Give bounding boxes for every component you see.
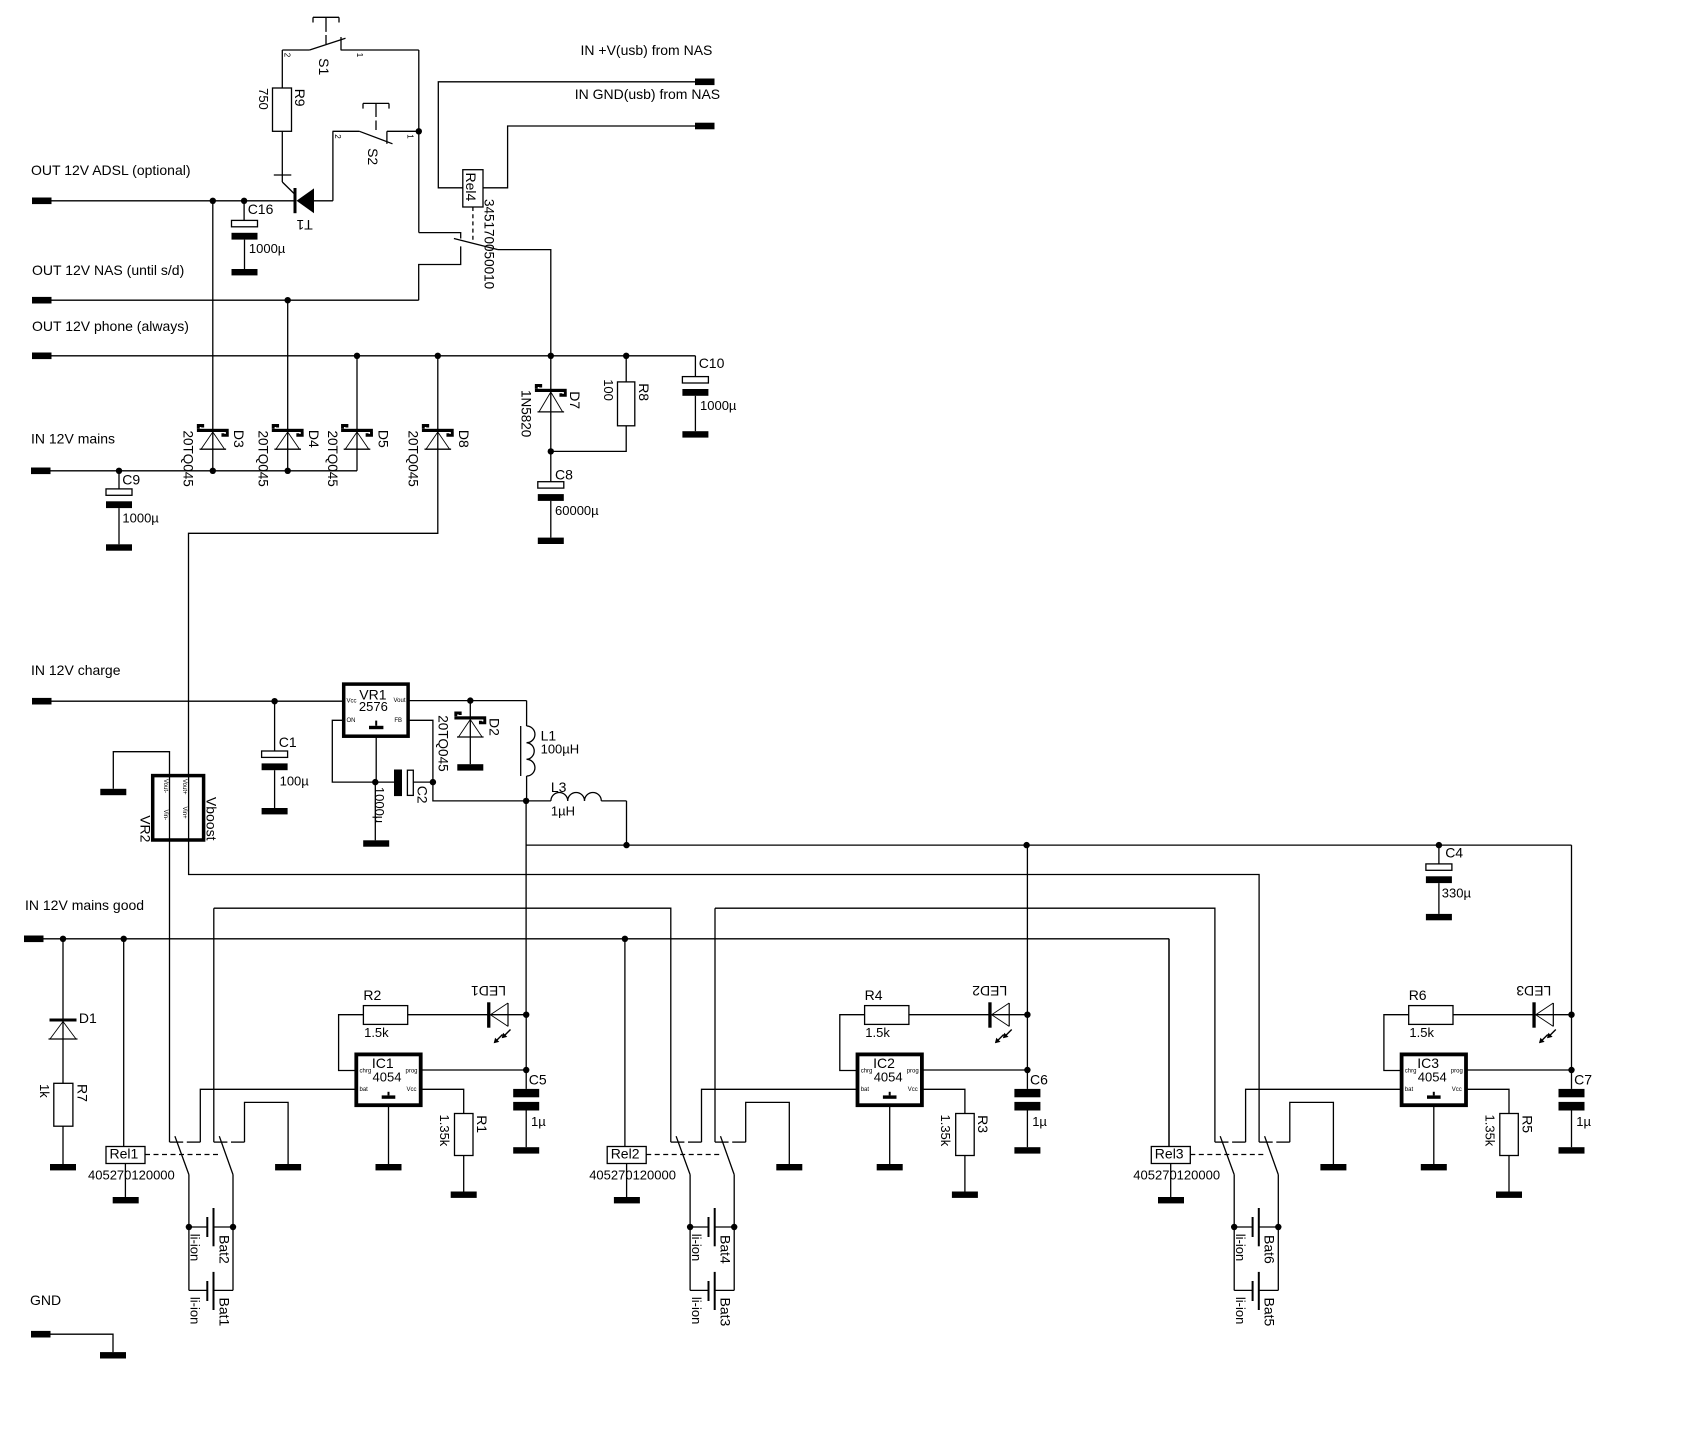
resistor R7 (54, 1083, 73, 1126)
svg-text:R2: R2 (363, 987, 381, 1003)
wire C5 line from L1/L3 node (525, 801, 527, 1015)
wire GND to ground (51, 1334, 114, 1352)
diode D5 symbol (341, 429, 373, 432)
wire VR2 Vin- down (169, 840, 171, 1142)
ground C10 (682, 431, 708, 437)
wire phone to D8 (437, 356, 439, 429)
wire mains rail (51, 470, 358, 472)
resistor R3 (956, 1114, 975, 1156)
wire Vcc to R1 (421, 1089, 464, 1113)
capacitor C9 (118, 471, 120, 489)
svg-text:1000µ: 1000µ (122, 510, 159, 525)
svg-text:IN 12V mains: IN 12V mains (31, 431, 115, 447)
diode D1 (62, 939, 64, 1084)
ground Rel3 (1158, 1197, 1184, 1203)
svg-text:S2: S2 (365, 148, 381, 165)
node VR1gnd/C2 (372, 779, 378, 785)
node phone/D5 (354, 353, 360, 359)
capacitor C8 plates (538, 482, 564, 488)
svg-text:Bat5: Bat5 (1262, 1298, 1278, 1327)
diode D3 symbol (197, 429, 229, 432)
wire Vcc to R5 (1466, 1089, 1509, 1113)
node ADSL/D3 (210, 198, 216, 204)
svg-text:405270120000: 405270120000 (88, 1167, 175, 1182)
svg-text:D2: D2 (487, 718, 503, 736)
svg-text:S1: S1 (316, 58, 332, 75)
node rail/Rel1 (121, 936, 127, 942)
relay Rel2 contact 2 (715, 1141, 729, 1143)
svg-text:C4: C4 (1445, 845, 1463, 861)
VR1 internal gnd (375, 721, 377, 726)
diode D7 symbol (535, 389, 567, 392)
wire phone to C10 (694, 356, 696, 377)
svg-text:VR2: VR2 (137, 815, 153, 842)
svg-text:prog: prog (907, 1068, 919, 1074)
wire L3 out down (626, 801, 628, 845)
svg-text:L3: L3 (551, 779, 567, 795)
svg-text:IN 12V charge: IN 12V charge (31, 662, 121, 678)
wire VR2 Vout- to ground (113, 752, 169, 789)
node Vout/D2 (467, 697, 473, 703)
battery Bat4 (687, 1224, 693, 1230)
ground C7 (1559, 1147, 1585, 1153)
svg-text:bat: bat (1405, 1087, 1414, 1093)
node mains/C9 (116, 468, 122, 474)
inductor L3 (551, 793, 568, 801)
resistor R5 (1500, 1114, 1519, 1156)
relay Rel2 contact dashes (646, 1154, 720, 1156)
svg-text:R8: R8 (636, 383, 652, 401)
wire VR1 Vout (408, 700, 526, 702)
node LED2/vert (1024, 1012, 1030, 1018)
wire Rel4 coil right (GND usb) (483, 126, 695, 188)
svg-text:GND: GND (30, 1292, 61, 1308)
relay Rel3 contact 2 (1259, 1141, 1273, 1143)
ground C4 (1426, 914, 1452, 920)
svg-text:C9: C9 (122, 471, 140, 487)
capacitor C4 plates (1426, 864, 1452, 870)
ground D2 (457, 764, 483, 770)
capacitor C9 plates (106, 489, 132, 495)
node prog/C6 (1024, 1067, 1030, 1073)
svg-text:1.5k: 1.5k (1409, 1025, 1434, 1040)
ground VR2 Vout- (100, 789, 126, 795)
node C2/FB (430, 779, 436, 785)
pad IN GND(usb) (695, 123, 715, 130)
svg-text:1µH: 1µH (551, 803, 575, 818)
svg-text:Vcc: Vcc (407, 1087, 417, 1093)
relay Rel1 coil (123, 939, 125, 1147)
svg-text:IN 12V mains good: IN 12V mains good (25, 897, 144, 913)
svg-text:1µ: 1µ (531, 1114, 546, 1129)
svg-text:li-ion: li-ion (689, 1297, 704, 1324)
svg-text:1.35k: 1.35k (437, 1115, 452, 1147)
svg-text:chrg: chrg (861, 1068, 873, 1074)
svg-text:2: 2 (283, 53, 292, 58)
wire VR1 gnd to ground (374, 782, 376, 840)
svg-text:R1: R1 (474, 1115, 490, 1133)
svg-text:li-ion: li-ion (1233, 1234, 1248, 1261)
svg-text:li-ion: li-ion (188, 1297, 203, 1324)
wire contact2 NC to ground (1290, 1102, 1334, 1164)
svg-text:345170050010: 345170050010 (482, 199, 497, 289)
resistor R6 (1409, 1006, 1453, 1025)
regulator VR1 (344, 684, 408, 736)
svg-text:C7: C7 (1574, 1072, 1592, 1088)
svg-text:D5: D5 (375, 430, 391, 448)
ground IC2 (877, 1164, 903, 1170)
wire boost output net (526, 844, 1572, 846)
capacitor C1 (274, 701, 276, 751)
svg-text:1: 1 (405, 134, 414, 139)
wire S1 pin2 to R9 (281, 50, 283, 88)
svg-text:bat: bat (360, 1087, 369, 1093)
capacitor C1 plates (262, 751, 288, 757)
svg-text:Vin-: Vin- (162, 810, 168, 821)
svg-text:D8: D8 (456, 430, 472, 448)
relay Rel4 contact (419, 233, 461, 239)
svg-text:D3: D3 (231, 430, 247, 448)
svg-text:D4: D4 (306, 430, 322, 448)
wire T1 to S2 pin2 (314, 200, 333, 202)
ground Rel2 contact (776, 1164, 802, 1170)
node phone/D7 (548, 353, 554, 359)
wire C2 node down to L3 input (433, 782, 526, 801)
svg-text:C2: C2 (415, 786, 431, 804)
pad OUT 12V NAS (32, 297, 52, 304)
resistor R9 (273, 88, 292, 131)
wire prog (922, 1069, 1028, 1071)
capacitor C5 (525, 1015, 527, 1089)
capacitor C4 (1438, 845, 1440, 864)
svg-text:OUT 12V phone (always): OUT 12V phone (always) (32, 318, 189, 334)
LED LED3 (1532, 1002, 1535, 1027)
capacitor C16 (243, 201, 245, 221)
ground IC3 (1421, 1164, 1447, 1170)
switch S1 (313, 16, 339, 18)
regulator VR2 Vboost (153, 776, 204, 840)
svg-text:1µ: 1µ (1576, 1114, 1591, 1129)
capacitor C8 (550, 451, 552, 481)
svg-text:bat: bat (861, 1087, 870, 1093)
wire R6 to LED3 (1453, 1014, 1572, 1016)
ground Rel1 (113, 1197, 139, 1203)
svg-text:1000µ: 1000µ (372, 787, 387, 824)
IC2 internal gnd (889, 1092, 891, 1096)
svg-text:Vin+: Vin+ (181, 807, 187, 820)
node D7/C8/R8 (548, 448, 554, 454)
svg-text:100µ: 100µ (280, 773, 310, 788)
svg-text:IN +V(usb) from NAS: IN +V(usb) from NAS (581, 42, 713, 58)
battery Bat5 (1233, 1227, 1235, 1290)
wire D8 to VR2 Vout+ (189, 429, 438, 776)
svg-text:405270120000: 405270120000 (589, 1167, 676, 1182)
node LED3/vert (1568, 1012, 1574, 1018)
svg-text:C10: C10 (699, 355, 725, 371)
wire NAS to D4 to mains (287, 300, 289, 471)
svg-text:C5: C5 (529, 1072, 547, 1088)
capacitor C16 plates (232, 220, 258, 226)
svg-text:D7: D7 (567, 391, 583, 409)
svg-text:1.35k: 1.35k (1482, 1115, 1497, 1147)
svg-text:Bat6: Bat6 (1262, 1235, 1278, 1264)
svg-text:D1: D1 (79, 1010, 97, 1026)
svg-text:R6: R6 (1409, 987, 1427, 1003)
svg-text:ON: ON (347, 718, 356, 724)
wire chain net B (715, 908, 1215, 1142)
relay Rel3 coil (1168, 939, 1170, 1147)
svg-text:2: 2 (333, 134, 342, 139)
wire chrg to R6 (1384, 1015, 1409, 1071)
svg-text:LED3: LED3 (1516, 983, 1551, 999)
wire VR2 Vin+ right (189, 840, 1260, 1142)
svg-text:20TQ045: 20TQ045 (406, 431, 421, 487)
wire mains good rail (44, 938, 1170, 940)
resistor R1 (455, 1114, 474, 1156)
svg-text:20TQ045: 20TQ045 (325, 431, 340, 487)
ground R7 (50, 1164, 76, 1170)
wire NAS rail (52, 299, 419, 301)
svg-text:prog: prog (406, 1068, 418, 1074)
svg-text:R4: R4 (865, 987, 883, 1003)
wire FB (408, 720, 433, 782)
wire R2 to LED1 (408, 1014, 527, 1016)
svg-text:R7: R7 (75, 1084, 91, 1102)
wire phone rail (52, 355, 696, 357)
node boost/C6line (1023, 842, 1029, 848)
svg-text:1µ: 1µ (1032, 1114, 1047, 1129)
svg-text:C16: C16 (248, 201, 274, 217)
node LED1/vert (523, 1012, 529, 1018)
node prog/C5 (523, 1067, 529, 1073)
ground C8 (538, 538, 564, 544)
ground Rel1 contact (275, 1164, 301, 1170)
svg-text:Vout+: Vout+ (181, 779, 187, 795)
svg-text:Rel1: Rel1 (110, 1145, 139, 1161)
svg-text:100µH: 100µH (541, 741, 580, 756)
svg-text:OUT 12V ADSL (optional): OUT 12V ADSL (optional) (31, 162, 191, 178)
svg-text:1: 1 (355, 53, 364, 58)
ground C6 (1014, 1147, 1040, 1153)
ground Rel3 contact (1320, 1164, 1346, 1170)
ground R1 (451, 1192, 477, 1198)
capacitor C10 plates (682, 377, 708, 383)
wire chain net A (214, 908, 671, 1142)
svg-text:Rel4: Rel4 (463, 173, 479, 202)
svg-text:750: 750 (256, 88, 271, 110)
wire VR1 GND pin (375, 736, 377, 782)
wire bat net IC1 (200, 1089, 356, 1142)
switch S2 (363, 102, 389, 104)
transistor T1 (281, 131, 283, 182)
svg-text:1.5k: 1.5k (865, 1025, 890, 1040)
node rail/Rel2 (622, 936, 628, 942)
svg-text:4054: 4054 (874, 1070, 903, 1085)
IC1 internal gnd (388, 1092, 390, 1096)
relay Rel1 contact 1 (170, 1141, 184, 1143)
svg-text:4054: 4054 (1418, 1070, 1447, 1085)
node ADSL/C16 (241, 198, 247, 204)
svg-text:T1: T1 (296, 217, 313, 233)
svg-text:Vcc: Vcc (347, 698, 357, 704)
svg-text:LED1: LED1 (471, 983, 506, 999)
diode D8 symbol (422, 429, 454, 432)
inductor L1 (526, 701, 528, 726)
node phone/D8 (435, 353, 441, 359)
ground C1 (262, 808, 288, 814)
node mains/D4 (285, 468, 291, 474)
LED LED1 (487, 1002, 490, 1027)
svg-text:20TQ045: 20TQ045 (256, 431, 271, 487)
svg-text:Vout: Vout (394, 698, 406, 704)
relay Rel3 contact 1 (1215, 1141, 1229, 1143)
wire ADSL rail (52, 200, 294, 202)
node: S1/S2 junction (416, 128, 422, 134)
svg-text:20TQ045: 20TQ045 (181, 431, 196, 487)
svg-text:1.5k: 1.5k (364, 1025, 389, 1040)
pad IN +V(usb) (695, 79, 715, 86)
wire VR1 ON (332, 720, 375, 782)
ground GND pad (100, 1352, 126, 1358)
svg-text:LED2: LED2 (972, 983, 1007, 999)
pad GND (31, 1331, 51, 1338)
ground Rel2 (614, 1197, 640, 1203)
svg-text:330µ: 330µ (1442, 886, 1472, 901)
wire C7 line from boost net (1571, 845, 1573, 1015)
svg-text:4054: 4054 (373, 1070, 402, 1085)
node L3out/boost (623, 842, 629, 848)
svg-text:R5: R5 (1519, 1115, 1535, 1133)
node boost/C4 (1436, 842, 1442, 848)
svg-text:100: 100 (601, 379, 616, 401)
svg-text:405270120000: 405270120000 (1133, 1167, 1220, 1182)
pad OUT 12V phone (32, 353, 52, 360)
svg-text:li-ion: li-ion (1233, 1297, 1248, 1324)
wire IC2 gnd pin (889, 1105, 891, 1164)
ground C16 (232, 269, 258, 275)
node charge/C1 (271, 698, 277, 704)
diode D2 symbol (454, 716, 486, 719)
wire chrg to R2 (339, 1015, 364, 1071)
wire Rel4 contact to D7 node (498, 250, 551, 356)
svg-text:2576: 2576 (359, 699, 388, 714)
ground R5 (1496, 1192, 1522, 1198)
svg-text:1N5820: 1N5820 (519, 390, 534, 437)
wire phone to R8 (625, 356, 627, 382)
svg-text:1000µ: 1000µ (249, 241, 286, 256)
svg-text:C8: C8 (555, 467, 573, 483)
svg-text:Bat2: Bat2 (216, 1235, 232, 1264)
wire S junction down (418, 50, 420, 233)
ground R3 (952, 1192, 978, 1198)
wire Vcc to R3 (922, 1089, 965, 1113)
capacitor C6 (1026, 1015, 1028, 1089)
IC3 internal gnd (1433, 1092, 1435, 1096)
node mains/D3 (210, 468, 216, 474)
wire to D7 (550, 356, 552, 452)
wire C6 line from boost net (1026, 845, 1028, 1015)
svg-text:1k: 1k (37, 1084, 52, 1098)
svg-text:li-ion: li-ion (188, 1234, 203, 1261)
wire phone to D5 to mains (356, 356, 358, 471)
svg-text:Rel3: Rel3 (1155, 1145, 1184, 1161)
diode D2 (469, 701, 471, 765)
svg-text:C6: C6 (1030, 1072, 1048, 1088)
battery Bat3 (689, 1227, 691, 1290)
svg-text:Vcc: Vcc (908, 1087, 918, 1093)
svg-text:R3: R3 (975, 1115, 991, 1133)
wire rail to Rel3 coil (1168, 939, 1170, 1147)
wire ADSL to D3 to mains (212, 201, 214, 471)
svg-text:1000µ: 1000µ (700, 398, 737, 413)
wire bat net IC3 (1246, 1089, 1402, 1142)
svg-text:IN GND(usb) from NAS: IN GND(usb) from NAS (575, 86, 720, 102)
svg-text:1.35k: 1.35k (938, 1115, 953, 1147)
battery Bat1 (188, 1227, 190, 1290)
pad IN 12V charge (32, 698, 52, 705)
wire IC1 gnd pin (388, 1105, 390, 1164)
svg-text:li-ion: li-ion (689, 1234, 704, 1261)
svg-text:Vout-: Vout- (162, 779, 168, 793)
charger IC IC3 (1402, 1054, 1466, 1105)
svg-text:C1: C1 (279, 734, 297, 750)
svg-text:FB: FB (394, 718, 402, 724)
svg-text:Vcc: Vcc (1452, 1087, 1462, 1093)
node L1/L3 (523, 798, 529, 804)
wire prog (1466, 1069, 1572, 1071)
LED LED2 (988, 1002, 991, 1027)
wire contact2 NC to ground (746, 1102, 790, 1164)
svg-text:OUT 12V NAS (until s/d): OUT 12V NAS (until s/d) (32, 262, 184, 278)
relay Rel1 contact 2 (214, 1141, 228, 1143)
wire charge rail (52, 700, 344, 702)
svg-text:20TQ045: 20TQ045 (435, 715, 450, 771)
wire prog (421, 1069, 527, 1071)
pad IN 12V mains good (24, 936, 44, 943)
wire R4 to LED2 (909, 1014, 1028, 1016)
relay Rel1 contact dashes (145, 1154, 219, 1156)
svg-text:Bat3: Bat3 (718, 1298, 734, 1327)
node phone/R8 (623, 353, 629, 359)
node NAS/D4 (285, 297, 291, 303)
charger IC IC1 (356, 1054, 420, 1105)
svg-text:60000µ: 60000µ (555, 503, 599, 518)
svg-text:Bat1: Bat1 (216, 1298, 232, 1327)
svg-text:Bat4: Bat4 (718, 1235, 734, 1264)
resistor R2 (363, 1006, 407, 1025)
svg-text:chrg: chrg (1405, 1068, 1417, 1074)
svg-text:Rel2: Rel2 (611, 1145, 640, 1161)
node prog/C7 (1568, 1067, 1574, 1073)
battery Bat2 (186, 1224, 192, 1230)
node rail/D1 (60, 936, 66, 942)
resistor R4 (865, 1006, 909, 1025)
wire chrg to R4 (840, 1015, 865, 1071)
diode D4 symbol (272, 429, 304, 432)
ground IC1 (376, 1164, 402, 1170)
wire Rel4 coil left (+V usb) (438, 82, 695, 188)
ground C9 (106, 544, 132, 550)
pad OUT 12V ADSL (32, 198, 52, 205)
pad IN 12V mains (31, 468, 51, 475)
relay Rel2 contact 1 (671, 1141, 685, 1143)
wire bat net IC2 (702, 1089, 858, 1142)
relay Rel2 coil (624, 939, 626, 1147)
svg-text:chrg: chrg (360, 1068, 372, 1074)
relay Rel3 contact dashes (1190, 1154, 1264, 1156)
wire NAS to relay contact (419, 246, 461, 300)
wire IC3 gnd pin (1433, 1105, 1435, 1164)
